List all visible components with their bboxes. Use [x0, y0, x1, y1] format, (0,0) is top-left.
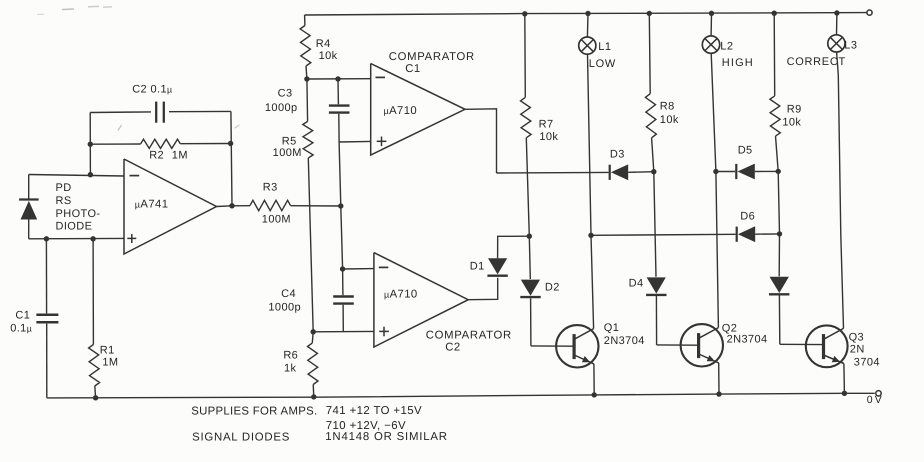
node L3 top [834, 10, 839, 15]
wire photodiode left vertical [28, 175, 30, 200]
diode D2 [529, 236, 530, 279]
svg-text:COMPARATOR: COMPARATOR [426, 329, 512, 341]
wire L3 to collector Q3 [837, 52, 844, 328]
wire top supply rail [305, 13, 867, 15]
wire to comparator C1 inverting input [307, 78, 371, 80]
wire L2 to collector Q2 [711, 53, 718, 327]
svg-text:DIODE: DIODE [56, 221, 93, 233]
wire signal column C3 to R3 node [339, 142, 341, 206]
svg-text:0.1µ: 0.1µ [10, 323, 32, 335]
svg-text:100M: 100M [273, 147, 302, 159]
wire L1 to collector Q1 [588, 54, 594, 328]
node R8 top [647, 11, 652, 16]
svg-text:R1: R1 [100, 344, 115, 356]
svg-text:L3: L3 [844, 39, 857, 51]
svg-text:Q3: Q3 [849, 332, 864, 344]
svg-text:3704: 3704 [854, 357, 880, 369]
resistor R6 [311, 332, 314, 343]
wire to comparator C2 inverting input [343, 268, 374, 270]
svg-text:2N: 2N [850, 344, 865, 356]
node 0V terminal [876, 391, 881, 396]
op-amp U1 uA741 [124, 159, 217, 254]
node R1 ground junction [93, 395, 98, 400]
wire comparator C2 output [468, 278, 498, 300]
svg-text:2N3704: 2N3704 [604, 335, 645, 347]
svg-text:R9: R9 [787, 104, 802, 116]
photodiode PD/RS [19, 198, 38, 200]
node L1 top [585, 11, 590, 16]
capacitor C2 feedback [90, 111, 151, 114]
wire op-amp output [217, 205, 233, 208]
wire D5 row [716, 171, 735, 173]
resistor R4 [304, 15, 306, 26]
node D6 row left junction [588, 233, 593, 238]
node D5/R9 junction [776, 169, 781, 174]
svg-text:R7: R7 [539, 118, 554, 130]
capacitor C3 [337, 79, 339, 104]
svg-text:D6: D6 [740, 210, 755, 222]
svg-text:HIGH: HIGH [722, 57, 754, 69]
svg-text:10k: 10k [319, 50, 338, 62]
node R1 branch junction [90, 236, 95, 241]
comparator C2 uA710 [374, 253, 468, 347]
svg-text:COMPARATOR: COMPARATOR [389, 51, 475, 63]
wire D3 row [497, 171, 609, 174]
svg-text:D3: D3 [610, 149, 625, 161]
svg-text:1000p: 1000p [268, 301, 301, 313]
node D3/R8 junction [651, 169, 656, 174]
scan artifact marks [62, 8, 74, 11]
node Q1 emitter ground [592, 392, 597, 397]
diode D6 [736, 227, 738, 242]
svg-text:LOW: LOW [589, 58, 616, 70]
lamp L1 [586, 14, 589, 38]
svg-text:D5: D5 [738, 144, 753, 156]
node Q2 emitter ground [716, 391, 721, 396]
svg-text:µA710: µA710 [384, 289, 418, 301]
svg-text:R4: R4 [316, 38, 331, 50]
svg-text:R8: R8 [660, 100, 675, 112]
wire D2 to Q1 base [531, 345, 574, 347]
svg-text:D1: D1 [470, 260, 485, 272]
wire non-inverting input row [29, 237, 124, 239]
wire feedback right vertical [231, 111, 232, 205]
svg-text:2N3704: 2N3704 [727, 334, 768, 346]
capacitor C1 [45, 239, 47, 314]
node junction C4/C2 input [340, 266, 345, 271]
svg-text:SUPPLIES FOR AMPS.: SUPPLIES FOR AMPS. [191, 405, 317, 417]
wire comparator C1 output [465, 109, 497, 173]
resistor R8 [648, 13, 651, 93]
node inverting input junction [88, 172, 93, 177]
svg-text:10k: 10k [782, 116, 801, 128]
svg-text:C2 0.1µ: C2 0.1µ [132, 84, 172, 96]
svg-text:R3: R3 [263, 182, 278, 194]
svg-text:RS: RS [56, 195, 72, 207]
svg-text:µA741: µA741 [135, 198, 169, 210]
node R6 ground junction [311, 394, 316, 399]
wire signal column to C2 inverting row [341, 206, 343, 269]
wire Q1 emitter to ground [593, 364, 595, 395]
lamp L3 [836, 13, 838, 35]
svg-text:10k: 10k [660, 114, 679, 126]
svg-text:100M: 100M [262, 214, 291, 226]
svg-text:L2: L2 [720, 41, 733, 53]
node top-right supply terminal [867, 10, 872, 15]
svg-text:V: V [875, 394, 882, 406]
svg-text:SIGNAL DIODES: SIGNAL DIODES [192, 431, 290, 443]
node Q3 emitter ground [842, 391, 847, 396]
wire C3 to comparator C1 non-inverting input [339, 140, 371, 143]
svg-text:1k: 1k [284, 362, 297, 374]
wire inverting input row [29, 175, 124, 177]
svg-text:C3: C3 [278, 87, 293, 99]
node R2 right junction [228, 141, 233, 146]
resistor R5 [306, 79, 309, 121]
svg-text:R5: R5 [282, 135, 297, 147]
svg-text:741 +12 TO +15V: 741 +12 TO +15V [326, 405, 422, 417]
resistor R9 [773, 13, 776, 96]
node C1 branch junction [44, 236, 49, 241]
node D5 row left junction [713, 169, 718, 174]
node junction R5/R6 [311, 329, 316, 334]
svg-text:D4: D4 [629, 278, 644, 290]
svg-text:1M: 1M [172, 149, 188, 161]
node op-amp output junction [229, 203, 234, 208]
wire to comparator C2 non-inverting input [313, 330, 374, 332]
transistor Q2 [681, 324, 723, 366]
svg-text:C1: C1 [405, 63, 420, 75]
resistor R2 feedback [90, 143, 140, 145]
wire D6 row [591, 234, 736, 235]
svg-text:D2: D2 [545, 282, 560, 294]
lamp L2 [710, 13, 712, 36]
svg-text:1M: 1M [102, 356, 118, 368]
svg-text:1N4148 OR SIMILAR: 1N4148 OR SIMILAR [325, 431, 448, 443]
svg-text:C2: C2 [445, 342, 460, 354]
node junction R4/R5 [304, 76, 309, 81]
node junction C3 branch [335, 76, 340, 81]
capacitor C4 [342, 269, 344, 295]
diode D7 unlabeled [778, 234, 780, 276]
svg-text:L1: L1 [598, 41, 611, 53]
resistor R1 [92, 239, 94, 345]
node L2 top [709, 11, 714, 16]
svg-text:0: 0 [867, 394, 873, 406]
node R3 output junction [338, 203, 343, 208]
wire Q2 emitter to ground [718, 363, 720, 394]
svg-text:R2: R2 [149, 149, 164, 161]
wire D1 to node row [498, 236, 530, 258]
transistor Q3 [806, 325, 848, 367]
node D1/D2/R7 junction [527, 234, 532, 239]
transistor Q1 [556, 325, 598, 367]
svg-text:PD: PD [56, 182, 72, 194]
svg-text:µA710: µA710 [384, 105, 418, 117]
diode D1 [488, 258, 507, 274]
wire R9 column D5 to D6 [778, 171, 779, 234]
wire diode to Q3 base [780, 343, 823, 345]
wire feedback left vertical [89, 113, 91, 175]
svg-text:PHOTO-: PHOTO- [56, 208, 101, 220]
node R2 left junction [88, 142, 93, 147]
diode D5 [735, 164, 737, 179]
svg-text:C4: C4 [281, 288, 296, 300]
svg-text:C1: C1 [15, 310, 30, 322]
node R7 top [522, 11, 527, 16]
svg-text:Q1: Q1 [604, 322, 619, 334]
resistor R3 [232, 205, 250, 207]
node D6/R9 junction [777, 231, 782, 236]
svg-text:R6: R6 [283, 349, 298, 361]
wire D4 to Q2 base [657, 344, 699, 346]
comparator C1 uA710 [371, 64, 465, 156]
svg-text:1000p: 1000p [265, 102, 298, 114]
node R9 top [772, 11, 777, 16]
wire ground rail [47, 393, 875, 398]
diode D3 [609, 165, 611, 180]
diode D4 [654, 172, 656, 277]
wire Q3 emitter to ground [843, 364, 846, 394]
resistor R7 [524, 14, 527, 98]
svg-text:10k: 10k [539, 131, 558, 143]
